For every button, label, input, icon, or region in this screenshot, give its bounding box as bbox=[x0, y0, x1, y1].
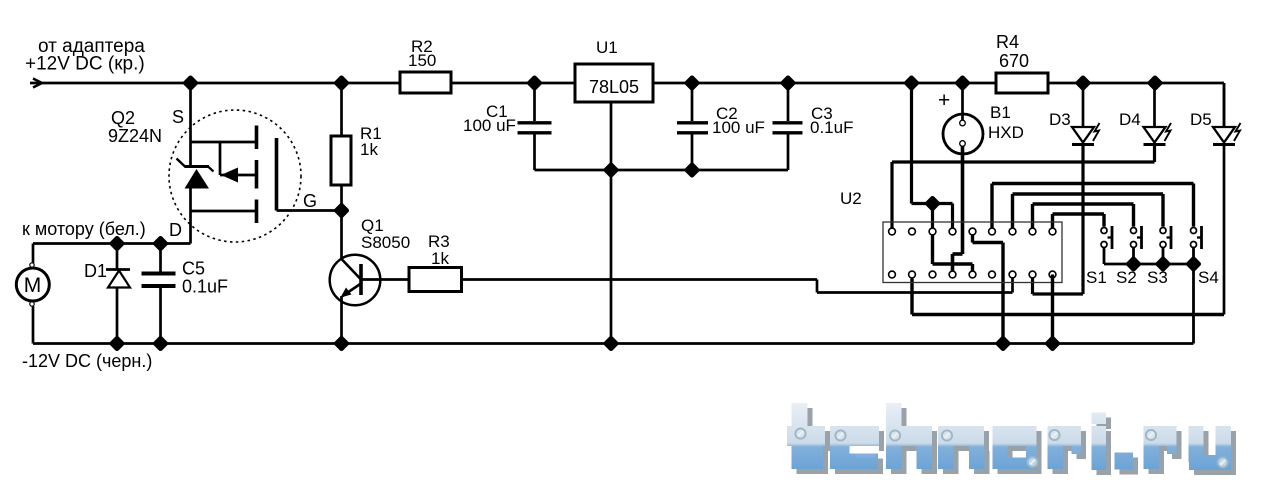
svg-text:U2: U2 bbox=[840, 189, 862, 208]
svg-text:D5: D5 bbox=[1190, 110, 1212, 129]
svg-text:78L05: 78L05 bbox=[589, 77, 639, 97]
svg-text:S: S bbox=[172, 107, 184, 127]
svg-text:150: 150 bbox=[408, 51, 436, 70]
svg-text:M: M bbox=[24, 274, 42, 297]
svg-text:S3: S3 bbox=[1147, 268, 1168, 287]
svg-text:B1: B1 bbox=[990, 103, 1011, 122]
svg-text:100 uF: 100 uF bbox=[712, 118, 765, 137]
svg-text:1k: 1k bbox=[431, 249, 449, 268]
svg-text:S2: S2 bbox=[1116, 268, 1137, 287]
svg-text:R4: R4 bbox=[996, 32, 1019, 52]
svg-text:D4: D4 bbox=[1119, 110, 1141, 129]
svg-text:0.1uF: 0.1uF bbox=[810, 118, 853, 137]
svg-text:Q2: Q2 bbox=[111, 108, 135, 128]
svg-text:+: + bbox=[938, 89, 950, 112]
svg-text:-12V DC (черн.): -12V DC (черн.) bbox=[22, 351, 152, 371]
svg-text:S1: S1 bbox=[1086, 268, 1107, 287]
svg-text:0.1uF: 0.1uF bbox=[182, 277, 228, 297]
svg-text:100 uF: 100 uF bbox=[463, 116, 516, 135]
svg-text:HXD: HXD bbox=[988, 123, 1024, 142]
svg-text:670: 670 bbox=[999, 51, 1029, 71]
svg-text:G: G bbox=[303, 191, 317, 211]
svg-text:1k: 1k bbox=[360, 140, 378, 159]
svg-text:C5: C5 bbox=[182, 259, 205, 279]
svg-text:9Z24N: 9Z24N bbox=[108, 126, 162, 146]
svg-text:D3: D3 bbox=[1049, 110, 1071, 129]
svg-text:D1: D1 bbox=[84, 261, 107, 281]
svg-text:к мотору (бел.): к мотору (бел.) bbox=[22, 219, 146, 239]
svg-text:U1: U1 bbox=[596, 38, 618, 57]
svg-text:D: D bbox=[169, 220, 182, 240]
svg-text:+12V DC (кр.): +12V DC (кр.) bbox=[25, 54, 145, 75]
svg-text:S4: S4 bbox=[1198, 268, 1219, 287]
svg-text:S8050: S8050 bbox=[361, 233, 410, 252]
